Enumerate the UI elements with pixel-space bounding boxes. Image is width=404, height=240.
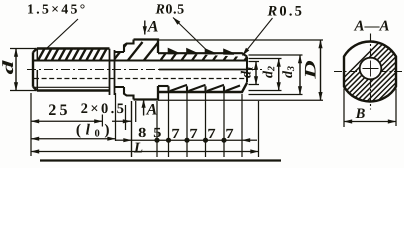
section arrow A top [144, 21, 146, 35]
barb sawtooth top [169, 49, 235, 54]
hex cylinder outline [134, 40, 159, 100]
leader R0.5 left [173, 18, 207, 51]
centerline solid overlay in barb region [159, 69, 247, 71]
bore wall line top [34, 60, 248, 62]
section centerlines [370, 34, 372, 110]
collar outline [115, 52, 125, 87]
chain dots [154, 138, 159, 143]
flats step outline [124, 40, 134, 100]
thread section outline [33, 49, 110, 91]
bore hidden line bottom [34, 78, 247, 80]
barb root line top [158, 53, 247, 56]
thread hatch band [38, 49, 107, 61]
dimension d1 [249, 62, 260, 85]
section hatch [312, 34, 404, 110]
hex hatch [113, 42, 159, 62]
right end edge [246, 57, 248, 83]
barb sawtooth bottom [169, 85, 241, 92]
chamfer edge vertical [36, 49, 38, 91]
bottom rule [40, 159, 281, 161]
barb crest line bottom [158, 83, 247, 92]
section bore circle [360, 58, 382, 80]
leader R0.5 right [243, 18, 273, 56]
barb hatch band [160, 52, 251, 62]
relief groove verticals [109, 49, 111, 95]
dimension d3 [249, 55, 303, 95]
neck bottom line [158, 85, 169, 87]
dimension d2 [249, 59, 282, 91]
thread root line bottom [34, 86, 110, 88]
section title A-A [354, 21, 389, 31]
section outer shape [344, 41, 396, 101]
dimension d [10, 48, 36, 50]
label R0.5 right [267, 6, 301, 16]
dimension (l0) [31, 138, 116, 140]
dimension L [31, 151, 259, 153]
arrow to step ext [112, 120, 131, 122]
chain value labels 8 5 7 7 7 7 [139, 128, 146, 137]
label 1.5x45 [28, 4, 84, 13]
chamfer leader [47, 19, 78, 48]
centerline main view [27, 69, 262, 71]
dimension D [158, 40, 323, 100]
chain dimension 8 5 7 7 7 7 [116, 139, 132, 141]
label 2x0.5 [81, 103, 123, 113]
section arrow A bottom [143, 100, 145, 116]
dimension 25 [31, 120, 102, 122]
bore center marks [363, 61, 379, 77]
dimension B [343, 89, 345, 128]
extension verticals bottom [30, 93, 32, 156]
label R0.5 left [155, 4, 183, 14]
